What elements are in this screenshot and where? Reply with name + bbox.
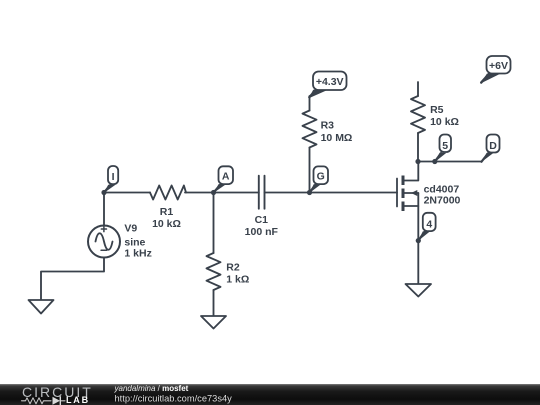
resistor R2 [207, 253, 250, 290]
supply label +6V [481, 56, 511, 83]
junction dot node G [307, 190, 312, 195]
wire R5 to drain node [417, 133, 419, 162]
wire R2 to ground [213, 290, 215, 316]
resistor R1 [150, 186, 186, 231]
wire C1 to G [265, 192, 310, 194]
svg-text:R3: R3 [321, 120, 335, 132]
node D flag [482, 135, 500, 163]
svg-text:cd4007: cd4007 [424, 183, 460, 195]
junction dot node A [211, 190, 216, 195]
wire R3 to G [309, 148, 311, 193]
svg-text:A: A [222, 171, 230, 183]
svg-text:5: 5 [442, 140, 448, 152]
footer url [115, 394, 233, 404]
wire drain node to D [418, 161, 482, 163]
svg-text:sine: sine [124, 236, 145, 248]
ground under V9 [29, 300, 54, 314]
svg-text:R2: R2 [226, 261, 240, 273]
wire R5 top stub [417, 82, 419, 96]
svg-text:10 kΩ: 10 kΩ [152, 218, 181, 230]
junction dot drain node left [415, 159, 420, 164]
svg-text:V9: V9 [124, 223, 137, 235]
CircuitLab logo [22, 384, 93, 405]
supply label +4.3V [309, 72, 347, 99]
drain lead [404, 162, 418, 181]
wire I to V9 [103, 193, 105, 226]
body lead with arrow [405, 192, 419, 194]
junction dot node 5 [432, 159, 437, 164]
channel segment source [402, 202, 405, 212]
resistor R3 [303, 111, 353, 148]
wire +4.3V to R3 [309, 96, 311, 111]
svg-text:+6V: +6V [489, 60, 508, 72]
svg-text:http://circuitlab.com/ce73s4y: http://circuitlab.com/ce73s4y [115, 394, 233, 404]
svg-text:4: 4 [426, 219, 432, 231]
svg-text:R5: R5 [430, 104, 444, 116]
transistor Q1 cd4007/2N7000 [397, 162, 461, 241]
node 4 flag [418, 213, 435, 241]
svg-text:10 kΩ: 10 kΩ [430, 116, 459, 128]
node A flag [214, 166, 234, 193]
source lead [404, 205, 418, 207]
voltage source V9 [88, 223, 152, 260]
svg-text:yandalmina / mosfet: yandalmina / mosfet [114, 384, 189, 393]
svg-text:I: I [112, 171, 115, 183]
ground under transistor [406, 284, 432, 297]
wire I to R1 [104, 192, 150, 194]
wire A to C1 [214, 192, 259, 194]
node 5 flag [435, 135, 451, 163]
svg-text:G: G [317, 170, 325, 182]
channel segment drain [402, 176, 405, 186]
footer bar [0, 384, 540, 405]
svg-text:LAB: LAB [66, 395, 90, 405]
svg-text:1 kHz: 1 kHz [124, 248, 151, 260]
junction dot node 4 [416, 238, 421, 243]
wire source to ground [417, 241, 419, 284]
wire A to R2 [213, 193, 215, 254]
wire G to gate [310, 192, 398, 194]
wire V9 to ground [41, 258, 104, 301]
svg-text:1 kΩ: 1 kΩ [226, 274, 249, 286]
channel segment body [402, 189, 405, 199]
junction dot node I [101, 190, 106, 195]
svg-text:100 nF: 100 nF [245, 226, 279, 238]
wire R1 to A [185, 192, 214, 194]
ground under R2 [201, 316, 226, 329]
node G flag [310, 166, 329, 193]
capacitor C1 [245, 176, 279, 238]
svg-text:R1: R1 [160, 206, 174, 218]
svg-text:D: D [489, 140, 497, 152]
svg-text:C1: C1 [255, 214, 269, 226]
svg-text:2N7000: 2N7000 [424, 195, 461, 207]
node I flag [104, 166, 118, 193]
footer title [114, 384, 189, 393]
resistor R5 [411, 96, 459, 133]
svg-text:10 MΩ: 10 MΩ [321, 132, 353, 144]
gate bar [396, 179, 398, 207]
svg-text:+4.3V: +4.3V [316, 76, 344, 88]
source vertical [417, 193, 419, 241]
